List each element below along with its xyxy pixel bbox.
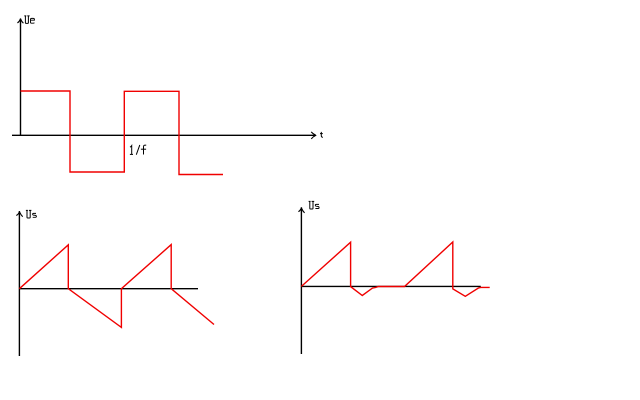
bottom-right graph: x-axis	[301, 285, 480, 287]
label 1/f	[130, 145, 146, 155]
label Us (bottom-right)	[309, 201, 320, 209]
top graph: x-axis arrowhead	[311, 132, 317, 139]
top graph: x-axis (t axis)	[12, 134, 316, 136]
top graph: y-axis arrowhead	[17, 18, 23, 23]
clipped sawtooth wave Us (red, bottom-right)	[301, 242, 489, 296]
label Us (bottom-left)	[26, 210, 37, 218]
label Ue	[24, 16, 34, 23]
bottom-left graph: y-axis (Us axis)	[18, 211, 20, 356]
triangle/sawtooth wave Us (red, bottom-left)	[19, 245, 214, 328]
bottom-left graph: y-axis arrowhead	[16, 211, 22, 217]
label t	[320, 132, 323, 138]
bottom-right graph: y-axis (Us axis)	[300, 207, 302, 354]
square wave Ue (red)	[21, 91, 224, 175]
bottom-right graph: y-axis arrowhead	[298, 207, 304, 213]
bottom-left graph: x-axis	[19, 288, 198, 290]
top graph: y-axis (Ue axis)	[20, 19, 22, 136]
